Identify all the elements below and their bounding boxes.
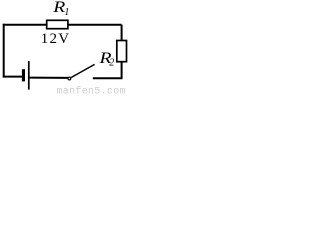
svg-text:12V: 12V bbox=[41, 31, 71, 47]
switch pivot circle bbox=[68, 77, 71, 80]
svg-text:manfen5.com: manfen5.com bbox=[57, 86, 126, 97]
wire right bbox=[121, 25, 123, 79]
wire top bbox=[3, 24, 122, 26]
wire bottom-left bbox=[3, 76, 23, 78]
battery positive plate bbox=[28, 61, 30, 90]
resistor R2 bbox=[117, 41, 127, 62]
svg-text:1: 1 bbox=[64, 7, 69, 18]
svg-text:2: 2 bbox=[109, 57, 114, 68]
battery negative plate bbox=[22, 69, 25, 81]
resistor R1 bbox=[47, 20, 68, 28]
wire battery to switch bbox=[30, 77, 69, 79]
switch lever bbox=[71, 64, 94, 77]
wire left bbox=[3, 24, 5, 78]
wire bottom-right bbox=[93, 77, 123, 79]
